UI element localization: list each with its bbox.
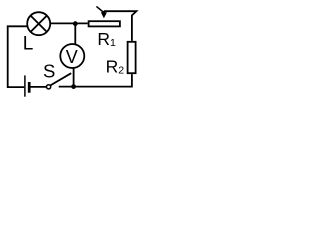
svg-text:L: L [23, 34, 34, 55]
svg-text:R2: R2 [106, 57, 125, 77]
svg-text:R1: R1 [97, 29, 116, 49]
svg-text:S: S [43, 60, 55, 81]
svg-text:V: V [66, 47, 78, 67]
